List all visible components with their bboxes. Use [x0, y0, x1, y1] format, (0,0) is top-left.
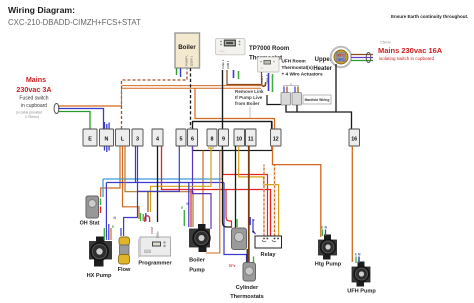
- svg-text:(in cable provided: (in cable provided: [16, 111, 42, 115]
- svg-text:5: 5: [180, 137, 183, 143]
- svg-text:Thermostats: Thermostats: [230, 294, 264, 300]
- htg pump M3: [315, 235, 342, 268]
- wire ufh-com brown loop: [262, 72, 266, 87]
- relay blue pin: [253, 219, 256, 234]
- terminal 4: [152, 129, 163, 146]
- wire live bus orange horizontals: [122, 85, 266, 87]
- wire mains-live orange: [58, 105, 122, 107]
- wire blue to cyl stat2: [224, 183, 247, 264]
- svg-text:230v: 230v: [155, 231, 159, 238]
- wire mains-earth green: [58, 112, 90, 130]
- boiler pump neutral drop: [188, 183, 190, 228]
- svg-text:16: 16: [351, 137, 357, 143]
- svg-text:Remove Link: Remove Link: [235, 89, 264, 94]
- wire brown branch programmer: [147, 192, 149, 212]
- ufh pump EN ticks: [355, 253, 361, 264]
- svg-text:UFH Pump: UFH Pump: [347, 289, 376, 295]
- wire brown bus y191: [125, 146, 193, 227]
- svg-text:TP7000 Room: TP7000 Room: [249, 45, 290, 52]
- wire orange enclosure to boiler pump: [202, 151, 204, 226]
- svg-text:Wiring Diagram:: Wiring Diagram:: [8, 5, 75, 15]
- wire actuator2 stub: [296, 105, 298, 112]
- svg-text:CXC-210-DBADD-CIMZH+FCS+STAT: CXC-210-DBADD-CIMZH+FCS+STAT: [8, 18, 141, 27]
- wire black 10 to cyl stat1: [235, 146, 237, 228]
- HX pump M1: [87, 237, 112, 280]
- bracket actuators: [283, 83, 299, 86]
- wire boiler switched-live dashed black: [190, 68, 192, 128]
- svg-text:4: 4: [156, 137, 159, 143]
- terminal 11: [246, 129, 257, 146]
- label mains 3A: [16, 75, 52, 119]
- svg-text:PUMP L: PUMP L: [185, 55, 189, 66]
- svg-text:N: N: [105, 137, 109, 143]
- label manifold wiring: [303, 95, 331, 104]
- cable ellipse heater: [366, 53, 371, 63]
- title text: [8, 5, 141, 27]
- svg-text:(230V ): (230V ): [190, 56, 194, 66]
- wire stat earth stub: [238, 71, 240, 79]
- svg-text:E: E: [88, 137, 92, 143]
- terminal N stubs above: [105, 122, 110, 129]
- enclosure box terminals 6-12: [193, 122, 273, 151]
- wire actuators to junction black: [286, 105, 352, 129]
- svg-text:E: E: [181, 206, 183, 210]
- wire stat-com brown: [227, 70, 261, 85]
- svg-text:E: E: [112, 225, 114, 229]
- svg-text:OH Stat: OH Stat: [80, 221, 100, 227]
- svg-text:Cylinder: Cylinder: [236, 285, 259, 291]
- svg-text:10: 10: [236, 137, 242, 143]
- thermostat TP7000: [216, 38, 245, 54]
- svg-text:Fused switch: Fused switch: [19, 96, 48, 102]
- wire gold t8 programmer: [151, 148, 212, 212]
- label UFH thermostat: [282, 59, 323, 77]
- label remove link: [235, 89, 264, 118]
- wire red relay pin2: [223, 151, 268, 237]
- svg-text:Mains: Mains: [26, 75, 46, 84]
- terminal 8: [207, 129, 217, 146]
- terminal E: [83, 129, 97, 146]
- svg-text:Boiler: Boiler: [178, 44, 196, 51]
- flow switch F1: [118, 237, 131, 273]
- svg-text:Boiler: Boiler: [189, 258, 206, 264]
- wire ufh-call black to manifold: [267, 95, 281, 105]
- wire L drop a orange: [101, 146, 120, 197]
- cylinder stat T2: [243, 263, 256, 282]
- wire brown 11 to cyl stat2: [248, 146, 250, 264]
- wire relay coil a dashed orange: [263, 165, 265, 236]
- wire orange 16 to ufh pump: [351, 146, 353, 262]
- wire blue 5 left: [138, 146, 180, 191]
- svg-text:isolating switch in cupboard: isolating switch in cupboard: [379, 56, 435, 61]
- svg-text:Htg Pump: Htg Pump: [315, 262, 342, 268]
- svg-text:Heater: Heater: [313, 66, 332, 72]
- svg-text:If Pump Live: If Pump Live: [235, 95, 263, 100]
- HX pump wire stubs: [103, 228, 105, 240]
- wire stat-call black: [222, 70, 224, 129]
- boiler pump earth tick: [183, 210, 185, 226]
- label boiler pump: [189, 258, 206, 274]
- wire ufh neutral stub: [268, 73, 270, 91]
- thermostat UFH room: [258, 57, 280, 72]
- wire boiler pump-live dashed brown: [122, 68, 188, 129]
- svg-text:in cupboard: in cupboard: [21, 103, 47, 109]
- boiler pump M2: [190, 224, 211, 252]
- ufh pump M4: [347, 262, 376, 295]
- label TP7000: [249, 45, 290, 62]
- actuator A2: [292, 87, 302, 106]
- label upper heater: [313, 57, 332, 72]
- wire link live to 12 orange: [195, 88, 275, 129]
- blue F tick: [250, 217, 255, 225]
- svg-text:COM: COM: [150, 227, 154, 235]
- cylinder stat T1: [232, 228, 247, 250]
- wire orange 12 to htg pump: [273, 146, 321, 237]
- wire gold t10 relay: [239, 146, 279, 236]
- wire L drop b orange: [123, 146, 140, 219]
- svg-text:0.75mm²): 0.75mm²): [25, 115, 39, 119]
- terminal N: [100, 129, 114, 146]
- svg-text:Programmer: Programmer: [138, 261, 172, 267]
- svg-text:2.5mm²: 2.5mm²: [380, 41, 391, 45]
- OH stat S1: [80, 196, 100, 227]
- cyl stat link black: [246, 249, 248, 264]
- terminal N stubs below: [105, 146, 110, 152]
- programmer earth ticks: [141, 213, 144, 221]
- wire heater neutral purple: [351, 57, 373, 59]
- terminal 3: [132, 129, 143, 146]
- label cylinder thermostats: [230, 285, 264, 300]
- svg-text:70°c: 70°c: [229, 264, 236, 268]
- svg-text:Manifold Wiring: Manifold Wiring: [305, 98, 330, 102]
- wire relay coil b dashed orange: [274, 165, 276, 236]
- wire red cyl stat1 curl: [226, 190, 232, 229]
- wire blue bus y182: [106, 146, 224, 237]
- wire red hook programmer: [145, 216, 150, 222]
- programmer P1: [138, 237, 172, 267]
- terminal 16: [349, 129, 360, 146]
- svg-text:HX Pump: HX Pump: [87, 273, 112, 279]
- boiler U1: [175, 33, 200, 68]
- svg-text:CALL 1: CALL 1: [221, 59, 225, 69]
- wire heater feed black: [335, 64, 337, 112]
- svg-text:E: E: [321, 226, 323, 230]
- svg-text:Mains 230vac 16A: Mains 230vac 16A: [378, 46, 443, 55]
- svg-text:12: 12: [273, 137, 279, 143]
- terminal 9: [219, 129, 229, 146]
- svg-text:E: E: [355, 253, 357, 257]
- svg-text:UFH Room: UFH Room: [282, 59, 306, 64]
- svg-text:6: 6: [191, 137, 194, 143]
- svg-text:Relay: Relay: [261, 252, 277, 258]
- wire green tick stat2: [253, 257, 255, 263]
- svg-text:9: 9: [222, 137, 225, 143]
- wire red drop boiler pump: [190, 190, 192, 228]
- svg-text:230vac 3A: 230vac 3A: [16, 85, 51, 94]
- svg-text:COM 1: COM 1: [226, 60, 230, 69]
- OH stat terminal ticks: [100, 199, 102, 206]
- svg-text:+ 4 Wire Actuators: + 4 Wire Actuators: [282, 72, 323, 77]
- wire switched-live black to 12: [193, 122, 272, 130]
- wire heater live brown: [351, 54, 373, 56]
- actuator A1: [281, 87, 291, 106]
- wire boiler neutral stub: [180, 68, 182, 77]
- terminal L: [116, 129, 130, 146]
- wire ufh earth stub: [272, 74, 274, 92]
- wire black 9 to cyl stat1: [223, 146, 232, 227]
- wire purple boiler pump: [193, 146, 212, 229]
- terminal 10: [234, 129, 245, 146]
- svg-text:Pump: Pump: [189, 268, 205, 274]
- terminal 6: [188, 129, 198, 146]
- svg-text:11: 11: [248, 137, 254, 143]
- wire black 4 to programmer: [157, 146, 159, 222]
- wire blue flow stub: [120, 228, 122, 236]
- wire heater earth green: [351, 60, 373, 62]
- wire stat neutral stub: [233, 70, 235, 78]
- relay K1: [255, 236, 282, 258]
- svg-text:70°C: 70°C: [337, 58, 345, 62]
- cyl stat1 earth tick: [236, 219, 238, 227]
- svg-text:3: 3: [136, 137, 139, 143]
- terminal 5: [176, 129, 186, 146]
- svg-text:8: 8: [211, 137, 214, 143]
- svg-text:Thermostat(s): Thermostat(s): [282, 65, 314, 70]
- wire orange mystery drop: [206, 151, 220, 254]
- wire boiler earth stub: [176, 68, 178, 75]
- svg-text:from Boiler: from Boiler: [235, 101, 260, 106]
- terminal 12: [271, 129, 282, 146]
- svg-text:Flow: Flow: [118, 267, 131, 273]
- immersion heater symbol: [331, 47, 351, 67]
- wire mains-neutral blue: [58, 109, 104, 130]
- wire red t4 bus y189: [162, 146, 271, 236]
- wire blue t3 to flow: [124, 146, 138, 236]
- cable ellipse mains: [54, 104, 59, 114]
- wire cyan ohstat to 9: [103, 146, 222, 197]
- svg-text:Ensure Earth continuity throug: Ensure Earth continuity throughout.: [391, 14, 468, 19]
- htg pump EN ticks: [321, 226, 327, 237]
- label mains 16A: [378, 46, 443, 61]
